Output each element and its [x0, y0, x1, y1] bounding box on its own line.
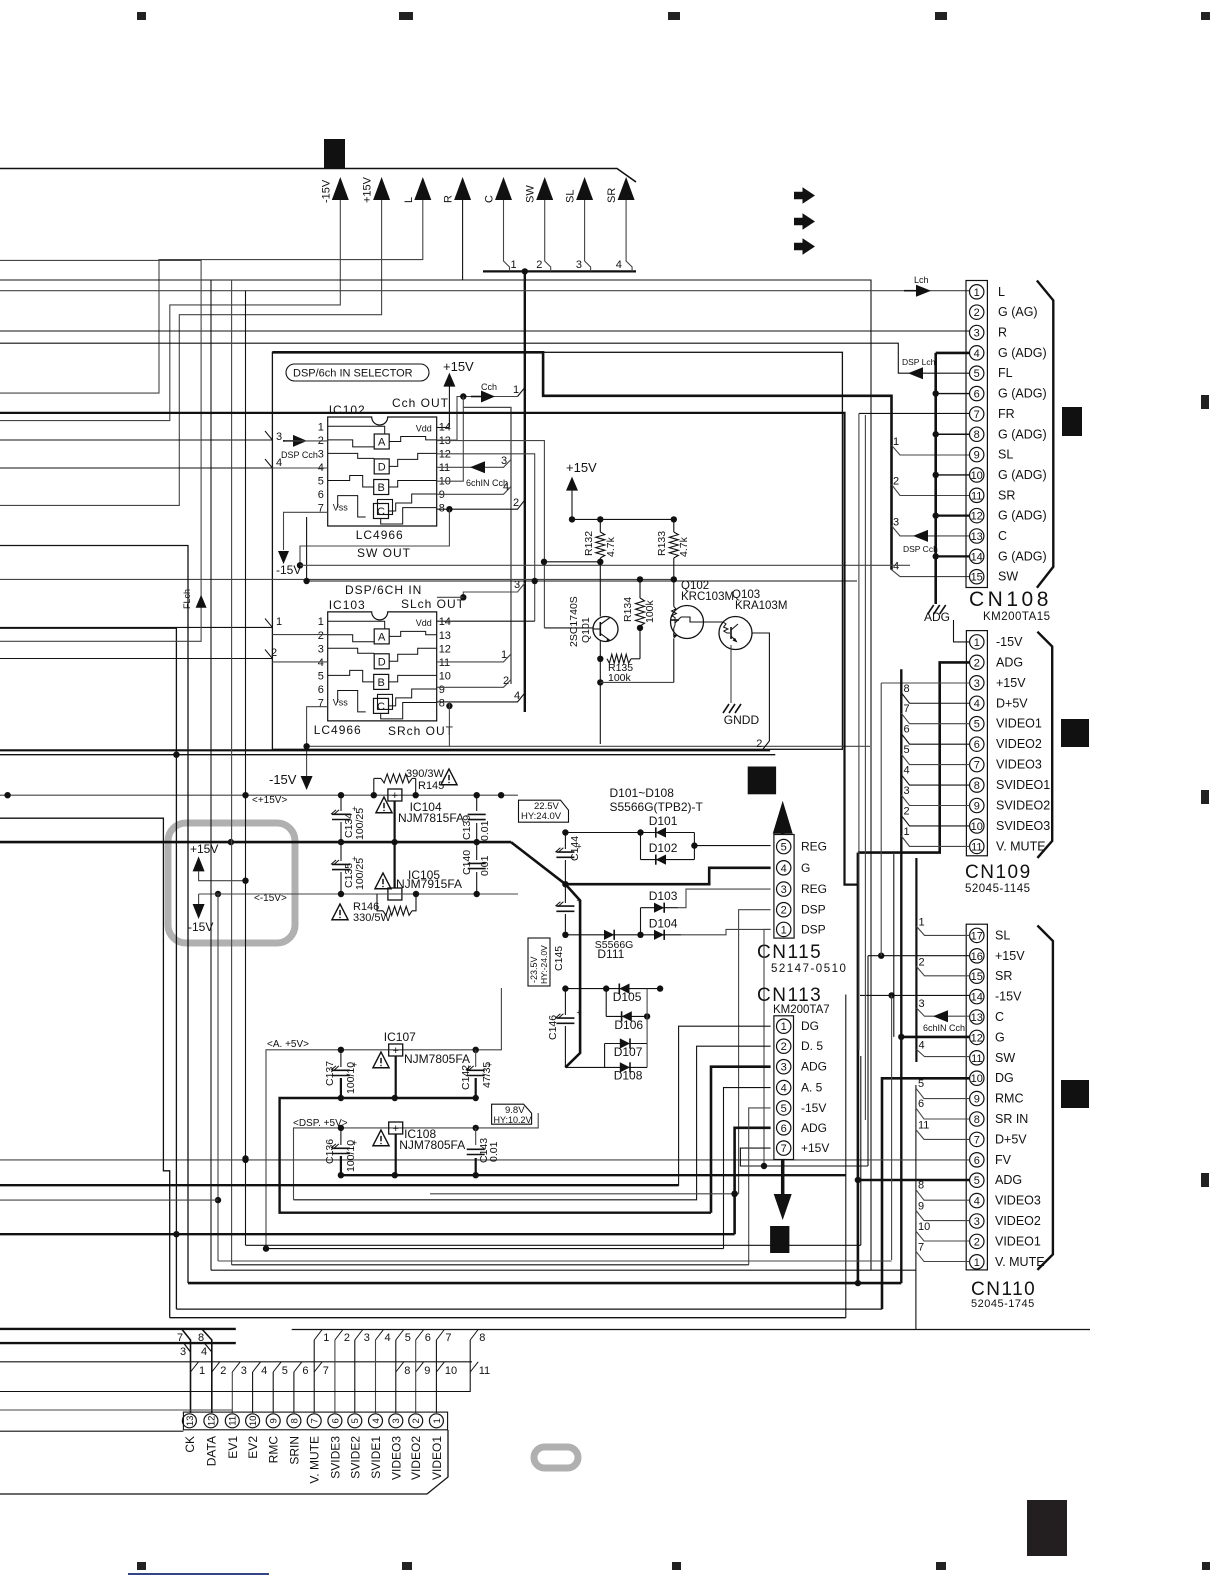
- svg-text:4: 4: [318, 657, 324, 669]
- bottom pin 6 SVIDE3: [328, 1414, 342, 1428]
- tap 9 bottom row: [416, 1362, 424, 1372]
- svg-text:9: 9: [424, 1365, 430, 1377]
- svg-text:5: 5: [918, 1078, 924, 1090]
- svg-text:DG: DG: [995, 1071, 1014, 1085]
- svg-text:Lch: Lch: [914, 275, 929, 285]
- svg-text:ADG: ADG: [996, 655, 1023, 669]
- svg-text:1: 1: [501, 649, 507, 661]
- wire R stem: [0, 200, 463, 280]
- svg-text:2SC1740S: 2SC1740S: [568, 596, 580, 647]
- top signal arrow +15V: [373, 177, 390, 200]
- CN110 pin 4: [970, 1193, 984, 1207]
- svg-text:SR: SR: [606, 188, 618, 203]
- svg-text:2: 2: [893, 475, 899, 487]
- svg-text:D101: D101: [649, 814, 678, 828]
- wire -15V stem: [0, 200, 340, 421]
- svg-text:5: 5: [282, 1365, 288, 1377]
- svg-text:D111: D111: [597, 947, 624, 961]
- CN108 pin 1: [970, 285, 984, 299]
- switch A of IC102: [374, 434, 389, 449]
- svg-text:2: 2: [756, 738, 762, 750]
- svg-text:8: 8: [904, 683, 910, 695]
- long verticals x211-245: [210, 280, 212, 1270]
- wire taps 5,6,11,8,9,10,7 to CN110 low pins: [915, 1085, 917, 1330]
- bottom pin 8 SRIN: [287, 1414, 301, 1428]
- gray service box: [168, 823, 295, 943]
- svg-text:11: 11: [479, 1365, 490, 1377]
- ground ADG under CN108: [928, 605, 934, 614]
- black mark right of CN108: [1062, 407, 1082, 436]
- CN108 pin 14: [970, 549, 984, 563]
- wire tap 6 to CN109 pin 6: [901, 734, 969, 745]
- black rect below arrow: [770, 1226, 789, 1253]
- black mark right of CN109: [1061, 719, 1089, 747]
- CN113 pin 6: [777, 1121, 791, 1135]
- CN108 pin 2: [970, 305, 984, 319]
- svg-text:2: 2: [271, 647, 277, 659]
- selector outer box: [272, 352, 842, 749]
- tap 8 to pin12: [202, 1329, 212, 1413]
- svg-text:2: 2: [344, 1332, 350, 1344]
- capacitor C144: [564, 833, 566, 850]
- line y561.8 from left to R132: [544, 561, 600, 563]
- wire stub 4 input to IC102 pin4: [0, 467, 272, 469]
- wire L stem: [0, 200, 423, 393]
- CN108 pin 3: [970, 325, 984, 339]
- tap 8 bottom row: [396, 1362, 404, 1372]
- bottom pin 4 SVIDE1: [369, 1414, 383, 1428]
- svg-text:G (AG): G (AG): [998, 305, 1038, 319]
- CN110 pin 13: [970, 1010, 984, 1024]
- svg-text:3: 3: [904, 785, 910, 797]
- CN110 pin 8: [970, 1112, 984, 1126]
- thick G diagonal from mid rail to CN115 pin4: [511, 842, 771, 884]
- svg-text:ADG: ADG: [995, 1173, 1022, 1187]
- svg-text:D101~D108: D101~D108: [610, 786, 675, 800]
- wire CN110 pin14 -15V: [860, 994, 970, 996]
- wire CN113 pin4 A.5: [724, 1088, 771, 1249]
- svg-text:CN109: CN109: [965, 862, 1032, 883]
- svg-text:5: 5: [974, 1175, 980, 1187]
- svg-text:D: D: [378, 656, 386, 668]
- svg-text:3: 3: [893, 517, 899, 529]
- svg-text:5: 5: [318, 476, 324, 488]
- svg-text:9: 9: [974, 1094, 980, 1106]
- CN110 pin 5: [970, 1173, 984, 1187]
- CN108 pin 6: [970, 386, 984, 400]
- wire stub 4 right (IC103 pin8): [437, 701, 450, 703]
- bottom pin 12 DATA: [204, 1414, 218, 1428]
- wire stub 1 on bus: [504, 200, 510, 271]
- svg-text:2: 2: [919, 956, 925, 968]
- svg-text:4: 4: [616, 259, 622, 271]
- svg-text:VIDEO3: VIDEO3: [389, 1436, 403, 1480]
- thick ADG mid rail: [0, 841, 511, 844]
- svg-text:7: 7: [445, 1332, 451, 1344]
- svg-text:B: B: [378, 482, 385, 494]
- svg-text:LC4966: LC4966: [356, 528, 404, 542]
- svg-text:EV1: EV1: [226, 1436, 240, 1459]
- svg-text:VIDEO2: VIDEO2: [995, 1214, 1041, 1228]
- wire stub 1 (right of selector): [518, 388, 525, 397]
- svg-text:D104: D104: [649, 917, 678, 931]
- svg-text:RMC: RMC: [267, 1436, 281, 1464]
- registration marks right edge: [1201, 395, 1209, 409]
- bottom-left staircase horizontals: [0, 1184, 679, 1186]
- svg-text:SR IN: SR IN: [995, 1112, 1028, 1126]
- svg-text:2: 2: [411, 1418, 422, 1423]
- svg-text:8: 8: [974, 429, 980, 441]
- svg-text:4: 4: [371, 1418, 382, 1423]
- svg-text:Vdd: Vdd: [416, 618, 432, 628]
- svg-text:SVIDE1: SVIDE1: [369, 1436, 383, 1479]
- wire CN108 G pin 14: [936, 555, 970, 557]
- CN109 pin 7: [970, 757, 984, 771]
- svg-text:17: 17: [971, 930, 983, 942]
- CN110 pin 17: [970, 928, 984, 942]
- bottom pin 5 SVIDE2: [348, 1414, 362, 1428]
- wire stub 2 on bus: [545, 200, 551, 271]
- svg-text:13: 13: [971, 1012, 983, 1024]
- capacitor C145: [564, 884, 566, 903]
- svg-text:+15V: +15V: [190, 842, 218, 856]
- svg-text:1: 1: [318, 616, 324, 628]
- svg-text:52147-0510: 52147-0510: [771, 963, 847, 975]
- wire stub 2 into IC103 pin4: [0, 658, 272, 660]
- resistor R135: [599, 641, 601, 659]
- svg-text:14: 14: [971, 992, 983, 1004]
- SRch OUT rail: [307, 745, 870, 747]
- svg-text:9: 9: [439, 489, 445, 501]
- svg-text:7: 7: [974, 409, 980, 421]
- svg-text:DSP: DSP: [801, 903, 826, 917]
- svg-text:15: 15: [971, 971, 983, 983]
- svg-text:13: 13: [185, 1416, 196, 1427]
- top signal arrow -15V: [332, 177, 349, 200]
- black tab on top line: [324, 139, 345, 168]
- svg-text:R132: R132: [583, 531, 595, 556]
- wire CN113 pin2 D.5: [294, 1046, 771, 1200]
- svg-text:3: 3: [180, 1346, 186, 1358]
- capacitor C135: [340, 842, 342, 861]
- CN113 pin 3: [777, 1060, 791, 1074]
- CN109 pin 4: [970, 696, 984, 710]
- svg-text:FV: FV: [995, 1153, 1012, 1167]
- svg-text:2: 2: [974, 657, 980, 669]
- tap 1 top-right row: [314, 1330, 322, 1341]
- thick 5V ground line: [280, 1098, 711, 1213]
- svg-text:5: 5: [974, 719, 980, 731]
- CN113 pin 7: [777, 1141, 791, 1155]
- capacitor C137: [340, 1050, 342, 1067]
- svg-text:6: 6: [974, 389, 980, 401]
- svg-text:3: 3: [974, 678, 980, 690]
- CN109 pin 1: [970, 635, 984, 649]
- svg-text:L: L: [998, 285, 1005, 299]
- svg-text:SVIDEO3: SVIDEO3: [996, 819, 1050, 833]
- svg-text:R134: R134: [622, 597, 634, 622]
- wire tap 5 to CN109 pin 7: [901, 754, 969, 765]
- wire R line to CN108 pin3: [0, 330, 970, 332]
- bottom pin 2 VIDEO2: [409, 1414, 423, 1428]
- svg-text:SL: SL: [998, 448, 1013, 462]
- svg-text:FR: FR: [998, 407, 1015, 421]
- wire CN113 pin3 ADG thick: [711, 1067, 771, 1213]
- voltage box 22.5V HY:24.0V: [519, 800, 569, 822]
- CN115 pin 1: [777, 922, 791, 936]
- capacitor C134: [340, 795, 342, 811]
- svg-text:VIDEO2: VIDEO2: [409, 1436, 423, 1480]
- svg-text:1: 1: [781, 924, 787, 936]
- svg-text:4: 4: [261, 1365, 267, 1377]
- svg-text:2: 2: [220, 1365, 226, 1377]
- top signal arrow R: [454, 177, 471, 200]
- svg-text:IC102: IC102: [329, 403, 366, 417]
- svg-text:V. MUTE: V. MUTE: [995, 1255, 1045, 1269]
- CN109 pin 3: [970, 676, 984, 690]
- svg-text:100/25: 100/25: [354, 858, 366, 890]
- svg-text:CN115: CN115: [757, 942, 822, 963]
- svg-text:NJM7805FA: NJM7805FA: [399, 1138, 465, 1152]
- svg-text:DSP/6CH IN: DSP/6CH IN: [345, 583, 422, 597]
- svg-text:4: 4: [781, 1083, 787, 1095]
- svg-text:-15V: -15V: [188, 920, 213, 934]
- svg-text:SL: SL: [995, 928, 1010, 942]
- svg-text:ADG: ADG: [924, 610, 950, 624]
- transistor Q101 2SC1740S: [593, 617, 618, 642]
- svg-text:SW: SW: [525, 185, 537, 203]
- bottom connector stub rows: [0, 1328, 236, 1330]
- svg-text:6: 6: [918, 1098, 924, 1110]
- svg-text:1: 1: [904, 826, 910, 838]
- CN110 pin 15: [970, 969, 984, 983]
- svg-text:EV2: EV2: [246, 1436, 260, 1459]
- svg-text:Q101: Q101: [580, 617, 592, 643]
- svg-text:C144: C144: [569, 836, 581, 861]
- wire stub 1 right (IC103 pin11): [437, 654, 511, 662]
- blue underline bottom-left: [128, 1573, 269, 1575]
- svg-text:G (ADG): G (ADG): [998, 468, 1047, 482]
- wire CN109 pin1 -15V: [954, 620, 970, 642]
- diode D111: [604, 930, 614, 940]
- svg-text:+15V: +15V: [801, 1141, 829, 1155]
- svg-text:4: 4: [974, 1196, 980, 1208]
- svg-text:RMC: RMC: [995, 1092, 1023, 1106]
- CN113 pin 5: [777, 1101, 791, 1115]
- resistor R145 390/3W: [373, 778, 375, 795]
- bottom pin 11 EV1: [225, 1414, 239, 1428]
- CN110 right bracket: [1037, 926, 1053, 1270]
- top signal arrow SW: [536, 177, 553, 200]
- svg-text:D+5V: D+5V: [996, 696, 1028, 710]
- thick ADG vertical: [857, 853, 860, 1284]
- svg-text:-15V: -15V: [995, 990, 1022, 1004]
- svg-text:52045-1745: 52045-1745: [971, 1298, 1035, 1310]
- CN108 pin 15: [970, 570, 984, 584]
- CN108 pin 8: [970, 427, 984, 441]
- CN110 pin 1: [970, 1255, 984, 1269]
- svg-text:6: 6: [974, 739, 980, 751]
- CN108 pin 13: [970, 529, 984, 543]
- wire Q103 collector right down to bus: [753, 633, 770, 741]
- IC IC103 body: [328, 612, 437, 721]
- svg-text:2: 2: [318, 630, 324, 642]
- svg-text:A: A: [378, 631, 386, 643]
- svg-text:CN110: CN110: [971, 1279, 1036, 1300]
- wire tap 3 to CN109 pin 9: [901, 795, 969, 806]
- svg-text:VIDEO1: VIDEO1: [995, 1234, 1041, 1248]
- wire CN113 pin1 DG: [679, 1026, 771, 1186]
- thick jog to CN110 area: [858, 413, 860, 1050]
- capacitor C143: [475, 1128, 477, 1145]
- svg-text:VIDEO1: VIDEO1: [996, 717, 1042, 731]
- svg-text:8: 8: [479, 1332, 485, 1344]
- svg-text:SVIDEO1: SVIDEO1: [996, 778, 1050, 792]
- svg-text:7: 7: [974, 760, 980, 772]
- svg-text:HY:10.2V: HY:10.2V: [494, 1115, 532, 1125]
- tap 8 top-right row: [470, 1330, 478, 1341]
- svg-text:SLch OUT: SLch OUT: [401, 597, 465, 611]
- CN115 pin 2: [777, 903, 791, 917]
- svg-text:+15V: +15V: [443, 359, 474, 374]
- svg-text:4.7k: 4.7k: [678, 536, 690, 557]
- IC108 NJM7805FA: [389, 1122, 403, 1134]
- CN109 pin 11: [970, 839, 984, 853]
- svg-text:HY:-24.0V: HY:-24.0V: [539, 945, 549, 984]
- thick G bus top: [272, 352, 891, 569]
- wire to CN115 pin5 REG: [694, 845, 770, 847]
- svg-text:12: 12: [439, 448, 451, 460]
- CN110 pin 9: [970, 1091, 984, 1105]
- svg-text:13: 13: [439, 630, 451, 642]
- wire Lch line to CN108 pin1: [0, 290, 970, 292]
- svg-text:9: 9: [974, 450, 980, 462]
- svg-text:NJM7805FA: NJM7805FA: [404, 1052, 470, 1066]
- svg-text:R133: R133: [656, 531, 668, 556]
- bottom connector outline: [0, 1430, 448, 1494]
- wire CN108 G pin 12: [936, 515, 970, 517]
- -15V arrow left of IC102: [284, 512, 328, 550]
- svg-text:6: 6: [302, 1365, 308, 1377]
- svg-text:D107: D107: [614, 1045, 643, 1059]
- tap 2 top-right row: [335, 1330, 343, 1341]
- svg-text:4: 4: [781, 863, 787, 875]
- top signal arrow C: [495, 177, 512, 200]
- wire CN113 pin5 -15V: [749, 1108, 771, 1265]
- svg-text:+: +: [576, 1008, 581, 1018]
- transistor Q103 KRA103M: [719, 617, 752, 650]
- svg-text:C: C: [995, 1010, 1004, 1024]
- (removed duplicate row): [170, 1317, 846, 1319]
- CN110 pin 7: [970, 1132, 984, 1146]
- svg-text:6: 6: [974, 1155, 980, 1167]
- svg-text:3: 3: [241, 1365, 247, 1377]
- svg-text:A. 5: A. 5: [801, 1081, 823, 1095]
- resistor R134: [639, 579, 641, 598]
- svg-text:D: D: [378, 461, 386, 473]
- CN109 pin 10: [970, 819, 984, 833]
- svg-text:SRIN: SRIN: [287, 1436, 301, 1465]
- CN113 pin 2: [777, 1039, 791, 1053]
- wire CN115 pin1 DSP down: [764, 929, 771, 1165]
- svg-text:2: 2: [781, 905, 787, 917]
- wire CN110 pin16 +15V: [868, 955, 970, 957]
- svg-text:4: 4: [893, 561, 899, 573]
- svg-text:330/5W: 330/5W: [353, 912, 392, 924]
- bottom pin 10 EV2: [246, 1414, 260, 1428]
- black rect above CN115: [748, 767, 776, 795]
- svg-text:Vdd: Vdd: [416, 423, 432, 433]
- resistor R146 330/5W: [377, 894, 383, 911]
- svg-text:DATA: DATA: [204, 1436, 218, 1466]
- wire IC102 pin12 to IC103 Vdd: [437, 454, 535, 621]
- long horizontals lower area: [246, 1244, 861, 1246]
- svg-text:SVIDE3: SVIDE3: [328, 1436, 342, 1479]
- wire EV1,EV2,RMC,SRIN verticals: [231, 1372, 233, 1413]
- svg-text:4: 4: [904, 765, 910, 777]
- transistor Q102 KRC103M: [671, 606, 704, 639]
- svg-text:G (ADG): G (ADG): [998, 509, 1047, 523]
- numbered bus under C/SW/SL/SR: [483, 270, 636, 272]
- svg-text:3: 3: [318, 448, 324, 460]
- svg-text:7: 7: [310, 1418, 321, 1423]
- svg-text:CN113: CN113: [757, 985, 822, 1006]
- svg-text:3: 3: [576, 259, 582, 271]
- svg-text:CN108: CN108: [969, 588, 1052, 611]
- big down arrow below CN113: [781, 1160, 785, 1201]
- svg-text:NJM7815FA: NJM7815FA: [398, 811, 464, 825]
- svg-text:2: 2: [781, 1041, 787, 1053]
- mid bundle verticals: [0, 413, 858, 885]
- svg-text:-23.5V: -23.5V: [529, 956, 539, 983]
- svg-text:1: 1: [199, 1365, 205, 1377]
- 6chIN distribution vertical: [463, 407, 511, 684]
- wire CN110 pin5 ADG thick: [858, 1179, 970, 1182]
- tap 3 top-right row: [355, 1330, 363, 1341]
- double bus lines under selector: [0, 749, 770, 751]
- IC105 NJM7915FA: [388, 888, 402, 900]
- svg-text:12: 12: [439, 643, 451, 655]
- tap 2 bottom row: [212, 1362, 220, 1372]
- junction on bus: [522, 268, 528, 274]
- capacitor C136: [340, 1128, 342, 1145]
- internal wiring IC103: [328, 621, 385, 629]
- svg-text:4: 4: [201, 1346, 207, 1358]
- svg-text:D. 5: D. 5: [801, 1039, 823, 1053]
- svg-text:C: C: [377, 701, 385, 713]
- switch C of IC102: [378, 500, 393, 515]
- svg-text:C136: C136: [324, 1139, 336, 1164]
- svg-text:Cch: Cch: [481, 382, 497, 392]
- wire stub 2 right (IC103 pin9): [437, 680, 511, 688]
- svg-text:100/25: 100/25: [354, 808, 366, 840]
- svg-text:C139: C139: [461, 815, 473, 840]
- gray stadium mark: [534, 1447, 578, 1468]
- connector CN115 body: [774, 835, 794, 939]
- svg-text:1: 1: [432, 1418, 443, 1423]
- svg-text:6: 6: [318, 489, 324, 501]
- 6chIN Cch arrow at CN110 pin13: [933, 1010, 948, 1022]
- row 1431: [0, 1430, 183, 1432]
- CN110 pin 3: [970, 1214, 984, 1228]
- svg-text:3: 3: [318, 643, 324, 655]
- wire CN110 pin6 FV: [0, 1159, 970, 1161]
- svg-text:12: 12: [206, 1416, 217, 1427]
- svg-text:7: 7: [904, 703, 910, 715]
- wire CN108 G pin 10: [936, 474, 970, 476]
- Cch feed line down from bus: [524, 271, 526, 712]
- svg-text:12: 12: [971, 1032, 983, 1044]
